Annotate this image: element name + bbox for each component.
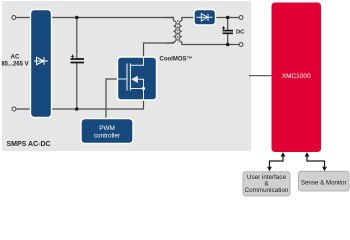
svg-text:SMPS AC-DC: SMPS AC-DC [7, 141, 51, 148]
terminal DC minus [239, 43, 243, 47]
SMPS AC-DC panel background [2, 1, 251, 151]
svg-text:XMC1000: XMC1000 [282, 73, 311, 80]
diode D1 output rectifier block [194, 10, 216, 26]
rectifier BR1 bridge block [31, 10, 52, 118]
transformer T1 primary winding [165, 18, 176, 44]
capacitor C2 output electrolytic [222, 18, 233, 45]
wire top rail [16, 17, 174, 19]
arrow XMC to User interface box [267, 152, 285, 171]
capacitor C1 bus electrolytic [71, 18, 85, 110]
svg-text:Communication: Communication [245, 187, 289, 194]
terminal AC bottom [12, 107, 16, 111]
node junction dot bottom of C1 [75, 107, 79, 111]
svg-text:controller: controller [94, 132, 121, 139]
transistor Q1 CoolMOS block [118, 57, 157, 100]
label AC 85...265 V [1, 55, 28, 68]
PWM controller U1 block [81, 119, 133, 144]
transformer T1 secondary winding [179, 18, 228, 45]
transformer T1 core [177, 20, 179, 43]
svg-text:AC: AC [11, 55, 20, 61]
arrow XMC to Sense Monitor box [305, 152, 327, 171]
node junction dot top of C1 [75, 16, 79, 20]
label CoolMOS [160, 56, 193, 63]
block User interface and Communication [243, 172, 290, 196]
svg-text:Sense & Monitor: Sense & Monitor [301, 179, 347, 186]
wire SMPS panel to XMC1000 [249, 75, 272, 77]
svg-text:DC: DC [236, 30, 245, 36]
terminal DC plus [239, 16, 243, 20]
label DC [236, 30, 245, 36]
node junction dot C2 bottom [226, 43, 230, 47]
svg-text:85...265 V: 85...265 V [1, 62, 28, 68]
wire bottom rail [16, 100, 144, 109]
wire drain from Q1 to transformer primary [144, 43, 175, 57]
wire diode output to DC+ [216, 17, 240, 19]
terminal AC top [12, 16, 16, 20]
block Sense and Monitor [299, 171, 350, 191]
node junction dot C2 top [226, 16, 230, 20]
svg-text:PWM: PWM [99, 125, 115, 132]
svg-text:CoolMOS™: CoolMOS™ [160, 56, 193, 63]
wire secondary bottom rail to DC- [228, 44, 239, 46]
wire gate from PWM controller to Q1 [106, 79, 118, 119]
microcontroller XMC1000 block [272, 3, 322, 153]
label SMPS AC-DC [7, 141, 51, 148]
